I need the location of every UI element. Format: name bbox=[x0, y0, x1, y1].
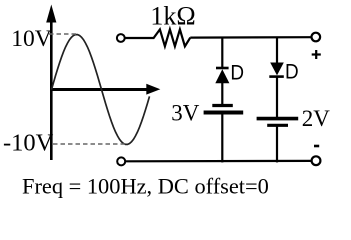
wire right branch (diode D2 branch) vertical top bbox=[276, 37, 278, 64]
svg-text:D: D bbox=[230, 61, 244, 84]
battery 3V (short plate top, long plate bottom) bbox=[204, 106, 244, 113]
battery 2V (long plate top, short plate bottom) bbox=[257, 119, 299, 126]
wave plot horizontal axis bbox=[51, 84, 160, 95]
minus sign bbox=[314, 145, 319, 148]
wire left branch (diode D1 branch) vertical top bbox=[221, 37, 223, 69]
diode D1 (cathode bar on top, triangle pointing up) bbox=[215, 68, 229, 83]
diode D2 (triangle pointing down, cathode bar below) bbox=[269, 63, 284, 77]
dashed guide line +10V bbox=[49, 33, 76, 35]
wave plot vertical axis bbox=[46, 5, 56, 161]
plus sign bbox=[312, 50, 321, 59]
svg-text:10V: 10V bbox=[11, 26, 52, 52]
wire battery 3V to bottom rail bbox=[221, 113, 223, 162]
wire top rail from resistor to output bbox=[190, 36, 311, 39]
wire battery 2V to bottom rail bbox=[276, 125, 278, 162]
svg-text:1kΩ: 1kΩ bbox=[150, 1, 195, 30]
wire diode D2 to battery 2V bbox=[276, 77, 278, 119]
resistor R 1k bbox=[125, 29, 191, 46]
bottom left terminal circle bbox=[117, 157, 125, 165]
bottom rail wire bbox=[125, 160, 312, 163]
wire diode D1 to battery 3V bbox=[221, 82, 223, 106]
sine waveform bbox=[52, 35, 150, 145]
output terminal + (top right circle) bbox=[312, 33, 321, 42]
svg-text:3V: 3V bbox=[171, 100, 200, 125]
dashed guide line -10V bbox=[53, 143, 126, 145]
svg-text:D: D bbox=[285, 60, 299, 83]
svg-text:Freq = 100Hz, DC offset=0: Freq = 100Hz, DC offset=0 bbox=[22, 174, 269, 199]
output terminal - (bottom right circle) bbox=[312, 156, 321, 165]
input terminal (top left circle) bbox=[117, 34, 125, 42]
svg-text:2V: 2V bbox=[302, 106, 331, 131]
svg-text:-10V: -10V bbox=[3, 130, 54, 157]
